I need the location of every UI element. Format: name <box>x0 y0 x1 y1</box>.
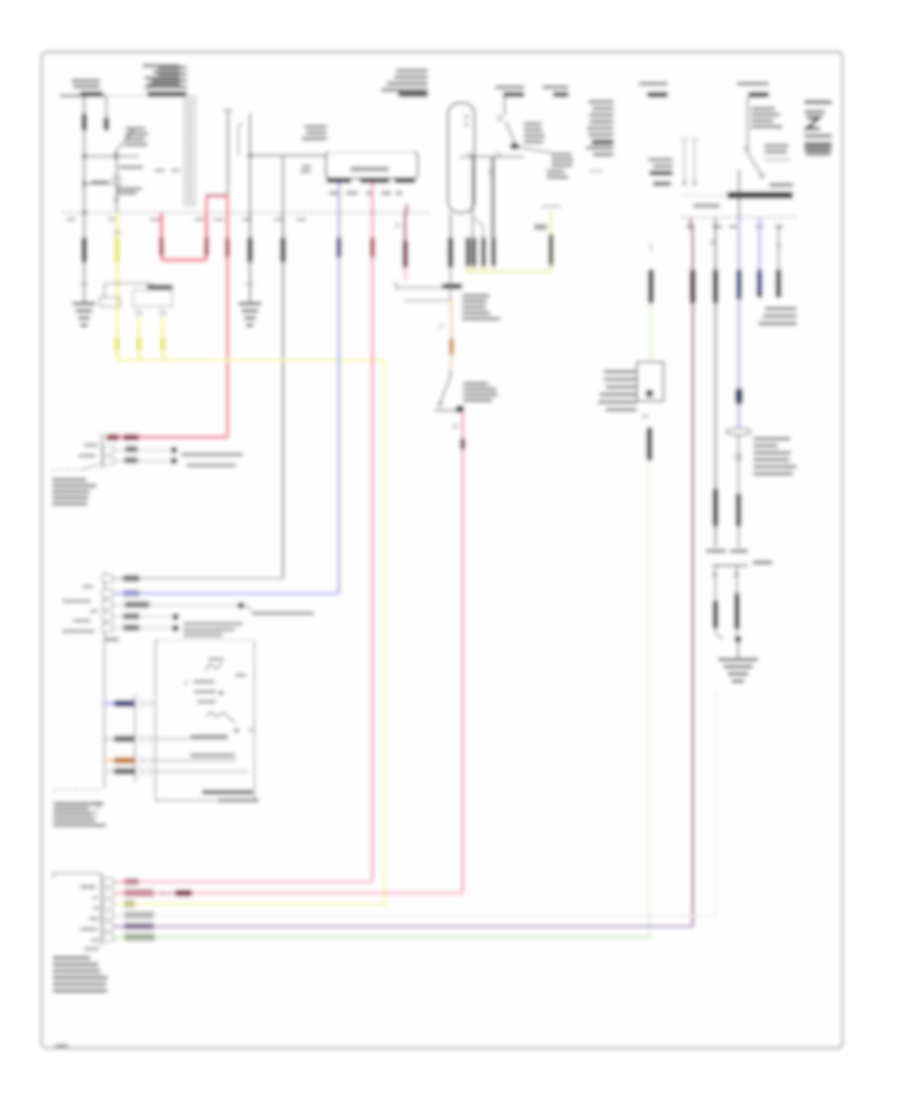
right text block RT2 <box>804 100 832 104</box>
pink jumper loop over bus <box>207 196 228 213</box>
wire battery feed down <box>83 96 85 213</box>
MC row1 pin <box>102 575 113 583</box>
bottom connector BC shell <box>53 873 102 945</box>
BC pink row2 wire <box>103 889 114 897</box>
inner box IB (light control ECU) <box>156 641 255 801</box>
MC row2 pin blue <box>102 590 113 598</box>
bus2 pin labels <box>686 225 695 228</box>
capsule on pink wire <box>370 237 375 258</box>
bold bar (ground bus label) <box>682 195 727 197</box>
fuse U pink bottom <box>162 213 207 261</box>
yellow wire 3 <box>163 318 171 360</box>
MC left column inner line <box>134 694 136 783</box>
fuse U pink left leg <box>160 213 164 257</box>
node junction dots on battery wire <box>82 154 87 159</box>
ground G3 <box>737 639 739 658</box>
LC1 left pin labels <box>84 443 98 446</box>
BC pink row1 wire <box>103 878 114 886</box>
BC row2 extra code <box>175 890 192 896</box>
main connector bus (dashed) <box>62 212 429 214</box>
relay pin bars <box>327 178 352 184</box>
yellow capsules <box>114 337 120 351</box>
C2 pin wires <box>715 567 717 600</box>
wire purple corner <box>691 925 693 927</box>
LC1 right labels <box>181 453 243 457</box>
label right of orange wire <box>462 294 490 297</box>
label under branch <box>119 166 143 169</box>
text right RT3 <box>753 437 790 440</box>
dashed boundary bottom <box>53 789 103 791</box>
label L5 left of relay <box>304 125 327 128</box>
jumper orange row <box>102 759 136 762</box>
IB switch 1 <box>205 663 222 671</box>
tick on wire <box>743 146 749 151</box>
wire stub W2 <box>105 96 107 117</box>
switch SW4 label box <box>764 144 789 147</box>
wire blue below bus2 <box>738 218 741 430</box>
wire headlamp sw down <box>116 148 118 213</box>
BC left pin labels <box>80 885 96 888</box>
switch SW1 labels <box>125 127 145 130</box>
jumper gray row <box>102 738 135 740</box>
switch SW2 labels <box>463 382 489 385</box>
connector pair symbol <box>683 140 685 186</box>
jumper gray row 2 <box>107 771 136 773</box>
wire gray stub from tall box <box>450 213 452 238</box>
connector box CB1 <box>105 283 153 285</box>
capsule on dark gray wire <box>280 237 286 263</box>
tiny text below RT1 <box>589 170 603 173</box>
wire pink from relay pin2 <box>371 183 374 880</box>
capsule on yellow-green right leg <box>549 234 554 266</box>
maroon capsule <box>403 240 409 268</box>
wire branch to switch <box>84 155 139 157</box>
wire left fuse drop (black) <box>83 213 85 303</box>
connector MC shell <box>104 572 106 788</box>
wire maroon from relay pin3 <box>405 204 407 240</box>
dashed link from F1 to F2 <box>104 95 150 97</box>
capsule on long pink <box>225 237 230 258</box>
MC row3 pin <box>102 601 113 609</box>
bus pin labels <box>66 218 76 221</box>
wire drop x494 <box>493 157 495 237</box>
component C2 small module <box>706 549 726 553</box>
BC yellow row3 wire <box>103 900 114 908</box>
dark fuse capsules on U <box>159 237 164 256</box>
right bus2 dashed <box>682 217 796 219</box>
IB internal wire 2 <box>156 760 238 762</box>
link bar y300 <box>404 300 452 302</box>
text under short wires <box>764 307 797 310</box>
relay box RLY1 <box>326 152 418 178</box>
small label 4n <box>105 638 119 642</box>
switch SW3 <box>497 116 503 122</box>
connector marks on wire <box>114 154 120 159</box>
wire below C1 <box>642 414 648 419</box>
yellow wire 2 <box>139 318 147 360</box>
wire dark-gray drop from junction <box>282 156 284 213</box>
wire drop B <box>491 157 493 237</box>
IB switch 2 <box>206 712 235 723</box>
yellow-green bottom link <box>467 267 484 271</box>
h-line into SW area <box>460 156 480 158</box>
BC green row6 wire <box>103 934 114 942</box>
label LB fuse <box>542 86 568 89</box>
text left of C1 <box>603 370 637 373</box>
wire junction to relay <box>250 155 326 157</box>
wire drop A <box>472 157 474 237</box>
fuse label F1 (top-left power feed) <box>71 79 100 82</box>
LC1 row B <box>103 457 114 465</box>
wire bar y157 <box>460 156 524 158</box>
wire yellow drop <box>116 213 119 311</box>
switch SW4 <box>748 153 761 174</box>
yellow long vertical <box>384 360 387 903</box>
IB right label <box>235 674 246 677</box>
ground G1 <box>73 302 96 305</box>
label R1 <box>639 82 668 85</box>
text after SW3 <box>551 153 572 156</box>
switch SW3 text box <box>524 122 542 125</box>
wire code blobs on pink <box>106 434 119 440</box>
connector capsule on battery wire <box>81 113 87 131</box>
wire pink1 corner <box>371 880 373 882</box>
text block BT <box>53 956 91 960</box>
jumper blue row <box>102 702 135 705</box>
wire blue short <box>758 218 761 294</box>
yellow wire 1 to manifold <box>117 307 125 361</box>
fuse label F2 (fusible link block) <box>142 64 180 67</box>
wire white long <box>715 690 717 912</box>
BC white row4 wire <box>103 912 114 920</box>
IB internal wire 3 <box>156 771 249 773</box>
label above bold bar <box>769 183 793 187</box>
label L3 (top-center fusible link) <box>158 66 187 69</box>
MC left pin labels <box>82 585 93 588</box>
wire from R2 down <box>747 98 749 154</box>
IB internal wire 1 <box>156 738 229 740</box>
ticks on bar y157 <box>467 153 501 158</box>
label L6 <box>302 165 311 168</box>
wire pink lower from switch <box>461 412 464 891</box>
LC1 bottom marks <box>80 465 99 471</box>
four fuse capsules <box>466 237 471 267</box>
wire W5 vertical <box>249 113 251 213</box>
tiny connector labels beside band <box>154 169 165 172</box>
page corner label <box>55 1044 68 1048</box>
wire orange segment <box>450 301 453 369</box>
label LA fuse <box>495 86 524 89</box>
ticks inside TB <box>464 115 469 127</box>
dimmer switch SW2 <box>449 369 452 375</box>
tall connector box TB <box>448 103 475 213</box>
labels right of wire <box>751 107 775 110</box>
LC1 row A <box>103 446 114 454</box>
text block LT1 <box>52 478 87 481</box>
relay RLY1 internal label <box>350 167 389 172</box>
label between buses <box>693 204 720 209</box>
wire black short <box>775 244 782 246</box>
ground G2 <box>239 302 262 305</box>
text left of connector pair <box>648 158 673 161</box>
wire W4 down from label <box>227 110 229 195</box>
wire maroon right <box>690 218 693 243</box>
capsule on blue wire <box>336 237 341 258</box>
wire pale green chain <box>650 244 652 251</box>
IB labels mid <box>184 681 188 685</box>
wire green corner <box>649 936 651 938</box>
wire pink2 corner <box>461 891 463 893</box>
label R2 <box>737 82 769 85</box>
IB bottom label <box>202 790 253 794</box>
wire from LA <box>504 98 506 116</box>
wire drop C short <box>474 218 483 237</box>
wire blue from relay pin1 <box>337 183 340 593</box>
wire below lens <box>738 435 740 547</box>
wire W5 below bus <box>249 213 251 303</box>
connector bracket h287 <box>395 283 398 289</box>
wire dark gray long <box>282 213 284 579</box>
yellow manifold horizontal <box>117 359 385 362</box>
MC row5 pin <box>102 624 113 632</box>
connector LC1 shell <box>101 433 103 469</box>
ignition switch SW1 blade <box>119 128 135 148</box>
node J1 <box>248 153 253 158</box>
text block LT2 <box>53 802 104 805</box>
shielded harness dotted band <box>182 95 196 207</box>
relay pin number labels <box>329 191 341 195</box>
BC purple row5 wire <box>103 923 114 931</box>
wire blue right upper <box>738 170 740 218</box>
right text block RT1 <box>588 100 614 103</box>
lens connector <box>726 428 751 435</box>
wire black mid <box>715 218 717 548</box>
pink wire corner to LC1 <box>108 436 228 439</box>
wire white corner <box>714 912 717 915</box>
wire branch 2 with label <box>84 183 111 185</box>
MC row4 pin <box>102 613 113 621</box>
label L4 headlamp relay block <box>396 69 428 72</box>
wire long pink down <box>226 213 229 438</box>
wire dark gray elbow <box>282 570 284 579</box>
component C1 (DRL resistor) <box>637 362 664 401</box>
wire yellow corner <box>383 903 385 905</box>
